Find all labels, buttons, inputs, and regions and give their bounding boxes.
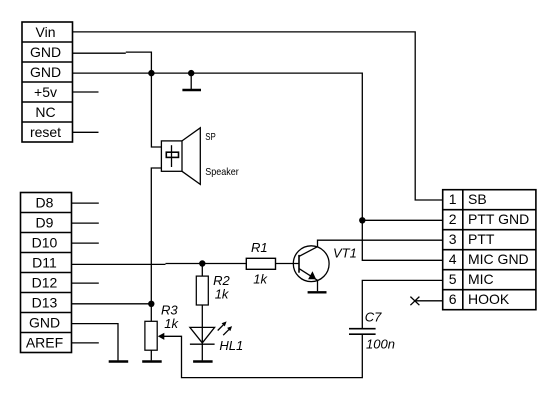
svg-text:HOOK: HOOK <box>468 291 510 307</box>
wire R2 to HL1 <box>201 305 203 327</box>
HL1 emission arrow 1 <box>218 321 227 330</box>
HOOK no-connect stub <box>415 300 443 302</box>
svg-text:MIC: MIC <box>468 271 494 287</box>
LED HL1 <box>190 327 215 344</box>
ground below GND row <box>109 360 129 362</box>
R3 wiper arrow <box>158 333 165 340</box>
wire GND row to ground <box>72 324 119 361</box>
svg-text:1k: 1k <box>253 271 268 286</box>
svg-text:reset: reset <box>30 124 61 140</box>
D8 stub <box>72 202 99 204</box>
svg-text:HL1: HL1 <box>219 338 243 353</box>
svg-text:GND: GND <box>29 314 60 330</box>
wire R3 bottom to ground <box>150 350 152 360</box>
junction dot GND/speaker <box>148 70 154 76</box>
svg-text:C7: C7 <box>365 310 382 325</box>
svg-text:4: 4 <box>449 251 457 267</box>
svg-text:VT1: VT1 <box>333 245 357 260</box>
potentiometer R3 <box>145 321 157 350</box>
svg-text:1k: 1k <box>164 316 179 331</box>
ground below HL1 <box>193 360 213 362</box>
resistor R2 <box>196 276 208 305</box>
junction dot D13 <box>148 301 154 307</box>
svg-text:D12: D12 <box>32 274 58 290</box>
speaker SP <box>161 128 200 185</box>
wire D13 to R3 top junction <box>72 303 152 305</box>
handset connector pin names <box>468 191 529 307</box>
+5v stub <box>73 91 99 93</box>
handset connector block outline <box>443 190 536 310</box>
wire R2 top <box>201 264 203 277</box>
svg-text:GND: GND <box>30 64 61 80</box>
svg-text:D9: D9 <box>36 214 54 230</box>
svg-text:D13: D13 <box>32 294 58 310</box>
ground below VT1 <box>308 291 327 293</box>
wire C7 top to MIC pin5 <box>362 280 442 328</box>
junction dot PTT GND <box>359 217 365 223</box>
svg-text:D10: D10 <box>32 234 58 250</box>
resistor R1 <box>246 258 275 269</box>
wire speaker bottom to R3 <box>151 168 161 321</box>
svg-text:1k: 1k <box>215 286 230 301</box>
reset stub <box>73 131 99 133</box>
junction dot D11/R2 <box>199 260 205 266</box>
svg-text:GND: GND <box>30 44 61 60</box>
handset connector pin numbers <box>449 191 457 307</box>
svg-text:SB: SB <box>468 191 487 207</box>
wire HL1 to ground <box>201 344 203 360</box>
ground top <box>182 73 201 90</box>
wire Vin to SB pin1 <box>73 32 443 200</box>
digital header pin labels <box>26 194 63 350</box>
svg-text:PTT GND: PTT GND <box>468 211 529 227</box>
svg-text:SP: SP <box>205 132 216 143</box>
svg-text:NC: NC <box>35 104 55 120</box>
junction dot GND/ground <box>188 70 194 76</box>
power header block outline <box>22 22 73 142</box>
svg-text:+5v: +5v <box>34 84 57 100</box>
svg-text:D8: D8 <box>36 194 54 210</box>
transistor VT1 <box>293 246 329 282</box>
wire R3 wiper to C7 bottom <box>164 334 363 377</box>
D10 stub <box>72 242 99 244</box>
digital header block outline <box>21 193 72 353</box>
svg-text:1: 1 <box>449 191 457 207</box>
svg-text:3: 3 <box>449 231 457 247</box>
no-connect cross <box>410 297 419 306</box>
HL1 emission arrow 2 <box>223 326 232 335</box>
svg-text:D11: D11 <box>32 254 57 270</box>
svg-text:2: 2 <box>449 211 457 227</box>
svg-text:Vin: Vin <box>36 24 56 40</box>
svg-text:Speaker: Speaker <box>205 167 239 178</box>
ground below R3 <box>142 360 162 362</box>
wire R1 to VT1 base <box>276 263 300 265</box>
wire to PTT GND pin2 <box>362 219 442 221</box>
svg-text:100n: 100n <box>366 337 395 352</box>
svg-text:6: 6 <box>449 291 457 307</box>
wire VT1 emitter to ground <box>317 280 319 291</box>
D9 stub <box>72 222 99 224</box>
wire GND row3 to MIC GND pin4 <box>73 73 443 260</box>
svg-text:5: 5 <box>449 271 457 287</box>
svg-text:MIC GND: MIC GND <box>468 251 529 267</box>
D12 stub <box>72 282 99 284</box>
wire GND row2 to speaker top terminal <box>73 52 126 54</box>
svg-text:AREF: AREF <box>26 334 63 350</box>
AREF stub <box>72 342 99 344</box>
svg-text:PTT: PTT <box>468 231 495 247</box>
wire VT1 collector to PTT pin3 <box>318 240 443 247</box>
svg-text:R1: R1 <box>251 240 268 255</box>
capacitor C7 <box>349 329 376 335</box>
power header pin labels <box>30 24 61 140</box>
wire D11 to R1 <box>72 263 166 265</box>
